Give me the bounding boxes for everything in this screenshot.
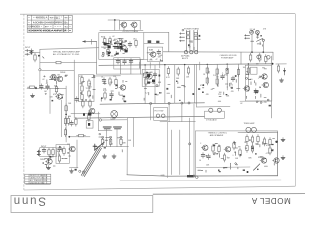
wire — [240, 100, 272, 102]
transistor Q9 — [120, 22, 127, 27]
svg-text:4.7K: 4.7K — [266, 153, 270, 155]
capacitor C26 — [114, 47, 119, 49]
AC line stubs — [245, 35, 250, 40]
resistor R65 — [246, 135, 248, 144]
node — [102, 136, 104, 138]
jack J10 — [82, 171, 84, 173]
resistor R6 — [64, 128, 66, 137]
value labels — [42, 72, 72, 118]
speaker jack J5 — [209, 108, 213, 112]
svg-text:22K: 22K — [113, 76, 117, 78]
wire — [49, 88, 51, 113]
resistor R40 — [167, 67, 169, 76]
capacitor C36 — [88, 123, 90, 126]
svg-text:12-4: 12-4 — [65, 22, 70, 24]
svg-text:10K: 10K — [226, 96, 230, 98]
wire — [76, 140, 78, 168]
wire — [174, 65, 176, 104]
stage box — [56, 145, 69, 164]
capacitor C22 — [148, 40, 152, 43]
wire — [277, 132, 279, 176]
rectifier D1 — [257, 55, 261, 59]
transistor Q14 — [201, 145, 208, 150]
svg-text:VOL: VOL — [79, 76, 83, 78]
svg-text:POWER AMP: POWER AMP — [221, 57, 234, 60]
node — [68, 136, 70, 138]
wire — [90, 39, 92, 44]
wire bus D — [127, 175, 168, 176]
svg-text:56K: 56K — [176, 78, 180, 80]
svg-text:1M: 1M — [244, 142, 247, 144]
node — [65, 114, 67, 116]
pilot lamp I1 — [256, 30, 260, 34]
value labels — [199, 142, 271, 162]
capacitor C32 — [254, 89, 258, 95]
wire — [154, 65, 156, 104]
wire — [256, 34, 258, 38]
primary taps — [180, 33, 185, 42]
svg-text:10K: 10K — [68, 103, 72, 105]
resistor R70 — [263, 137, 265, 146]
wire — [167, 122, 169, 178]
capacitor C6 — [110, 92, 114, 98]
pot R11 — [88, 89, 90, 98]
AC plug pin P2 — [190, 51, 193, 54]
resistor R22 — [120, 137, 122, 146]
transistor Q11 — [261, 74, 268, 79]
svg-text:4.7K: 4.7K — [166, 77, 170, 79]
svg-text:1K: 1K — [133, 39, 136, 41]
resistor R57 — [249, 53, 251, 62]
wire power rail — [163, 51, 273, 53]
capacitor C38 — [88, 113, 91, 116]
resistor R29 — [56, 61, 61, 63]
svg-text:ALL VOLTAGES DC TO GND: ALL VOLTAGES DC TO GND — [53, 53, 80, 56]
resistor R17 — [67, 116, 69, 125]
wire bus A — [99, 64, 273, 66]
resistor R14 — [104, 91, 106, 100]
capacitor C3 — [46, 84, 50, 90]
capacitor C14 — [42, 148, 46, 154]
bias rect — [251, 67, 258, 74]
capacitor C17 — [148, 82, 151, 84]
wire — [150, 105, 152, 120]
transistor Q7 — [149, 52, 156, 57]
capacitor C9 — [129, 59, 133, 65]
rectifier D2 — [267, 56, 271, 60]
svg-text:68K: 68K — [123, 142, 127, 144]
resistor R68 — [246, 144, 248, 153]
svg-text:68K: 68K — [158, 57, 162, 59]
transistor Q5 blob — [147, 74, 150, 77]
resistor R52 — [226, 67, 228, 76]
input box — [40, 148, 57, 157]
ground — [31, 94, 35, 98]
capacitor C23 — [156, 41, 159, 43]
wire — [96, 73, 148, 75]
svg-text:10: 10 — [101, 77, 103, 79]
svg-text:.02: .02 — [112, 36, 115, 38]
value labels — [101, 76, 124, 97]
wire — [168, 175, 278, 178]
capacitor C2 — [40, 84, 44, 90]
pot R7 — [81, 76, 83, 85]
capacitor C5 — [102, 78, 106, 84]
transistor Q13 — [243, 86, 250, 91]
node — [188, 102, 190, 104]
resistor R23 — [77, 134, 86, 136]
resistor R41 — [177, 67, 179, 76]
transistor Q8 — [120, 45, 127, 50]
svg-text:47K: 47K — [206, 94, 210, 96]
resistor R20 — [101, 137, 103, 146]
wire — [140, 60, 142, 75]
svg-text:330: 330 — [57, 74, 60, 76]
bias box — [148, 47, 163, 61]
resistor R16 — [89, 99, 91, 108]
transistor Q10 — [130, 22, 137, 27]
capacitor C28 — [108, 52, 111, 54]
svg-text:.02: .02 — [42, 79, 45, 81]
capacitor C7 — [116, 59, 120, 65]
resistor R54 — [247, 66, 249, 75]
wire — [108, 19, 120, 21]
svg-text:47K: 47K — [110, 82, 114, 84]
resistor R4 — [65, 104, 67, 113]
wire — [98, 130, 112, 132]
AC plug pin P1 — [184, 51, 187, 54]
wire — [238, 131, 278, 133]
svg-text:22K: 22K — [218, 94, 222, 96]
extra annotations — [102, 40, 274, 169]
svg-text:15K: 15K — [54, 86, 58, 88]
frame left border — [23, 14, 25, 190]
node dots on bus A — [144, 63, 249, 65]
resistor R15 — [82, 99, 84, 108]
svg-text:22K: 22K — [67, 144, 71, 146]
resistor R61 — [218, 145, 220, 154]
node — [257, 169, 259, 171]
capacitor C37 — [83, 113, 85, 116]
svg-text:INPUT: INPUT — [41, 146, 47, 148]
tremolo box — [195, 131, 277, 176]
resistor R24 — [63, 147, 65, 156]
frame bottom border — [24, 186, 295, 190]
wire — [276, 63, 287, 65]
wire — [197, 106, 231, 108]
value labels — [200, 64, 259, 90]
speaker jack J6 — [217, 108, 221, 112]
label TREMOLO CONTROL — [208, 133, 227, 137]
resistor R31 — [109, 37, 111, 46]
node — [218, 169, 220, 171]
speed pot arrow — [253, 164, 259, 170]
wire — [30, 51, 40, 53]
wire input row — [27, 87, 66, 89]
wire — [65, 86, 67, 142]
resistor R55 — [206, 76, 208, 85]
value labels — [144, 73, 190, 86]
wire — [189, 118, 191, 176]
svg-text:68K: 68K — [248, 158, 252, 160]
wire — [39, 71, 41, 88]
diode D3 — [283, 68, 286, 75]
svg-text:.1: .1 — [222, 73, 224, 75]
node — [39, 69, 41, 71]
svg-text:1K: 1K — [203, 74, 206, 76]
svg-text:15K: 15K — [149, 59, 153, 61]
svg-text:BIAS: BIAS — [149, 49, 154, 52]
svg-text:68K: 68K — [150, 72, 154, 74]
transistor Q4 — [88, 108, 95, 113]
controls box — [78, 75, 94, 102]
transistor Q17 — [273, 158, 280, 163]
wire — [144, 65, 146, 104]
svg-text:2M: 2M — [255, 144, 258, 146]
wire — [139, 62, 141, 68]
svg-text:10K: 10K — [235, 158, 239, 160]
svg-text:100: 100 — [243, 67, 246, 69]
value labels — [149, 49, 158, 62]
svg-text:2.2: 2.2 — [111, 144, 114, 146]
jack J7 — [156, 114, 160, 118]
svg-text:SCHEMATIC MODEL A AMPLIFIER: SCHEMATIC MODEL A AMPLIFIER — [28, 30, 66, 33]
capacitor C13 — [58, 146, 62, 152]
svg-text:470: 470 — [230, 85, 233, 87]
svg-text:47K: 47K — [263, 29, 267, 31]
svg-text:FOOT SW: FOOT SW — [155, 111, 164, 113]
svg-text:2N508: 2N508 — [40, 159, 45, 161]
value labels — [79, 76, 91, 90]
capacitor C1 — [30, 49, 34, 55]
svg-text:10K: 10K — [186, 77, 190, 79]
node — [272, 63, 274, 65]
resistor R64 — [239, 148, 241, 157]
svg-text:INPUT: INPUT — [25, 47, 31, 49]
wire — [168, 104, 170, 121]
svg-text:15K: 15K — [89, 86, 93, 88]
wire — [226, 64, 228, 90]
svg-text:.1: .1 — [232, 155, 234, 157]
interlock box — [86, 121, 93, 128]
frame top border — [20, 13, 295, 16]
resistor R3 — [55, 85, 57, 94]
svg-text:10K: 10K — [50, 97, 54, 99]
resistor R18 — [75, 117, 77, 126]
node — [189, 143, 191, 145]
svg-text:100: 100 — [219, 92, 222, 94]
svg-text:100: 100 — [122, 99, 125, 101]
jack J10b — [79, 170, 81, 172]
resistor R73 — [277, 64, 279, 73]
lamp M1 — [111, 111, 118, 118]
svg-text:2 RCA JACK: 2 RCA JACK — [206, 119, 218, 122]
resistor R1 — [34, 53, 36, 62]
capacitor C34 — [120, 46, 123, 49]
AC plug pin P3 — [195, 51, 198, 54]
svg-text:MODEL A: MODEL A — [36, 16, 48, 20]
parts value annotations (illegible at scale) — [43, 29, 275, 173]
resistor R50 — [206, 66, 208, 75]
svg-text:470: 470 — [231, 91, 234, 93]
wire — [69, 167, 78, 169]
capacitor C29 — [104, 43, 107, 46]
capacitor C11 — [103, 127, 111, 129]
transistor Q5 — [146, 74, 153, 79]
wire preamp box top — [40, 48, 99, 50]
gang line (hatched diagonal) — [81, 147, 101, 177]
wire — [114, 20, 116, 30]
feedback arrow — [83, 40, 97, 42]
svg-text:1M: 1M — [245, 148, 248, 150]
node — [38, 55, 40, 57]
svg-text:10K: 10K — [206, 165, 210, 167]
lamp L2 — [251, 127, 256, 132]
wire — [61, 100, 63, 137]
svg-text:330: 330 — [65, 75, 68, 77]
wire — [71, 113, 100, 115]
ground — [280, 78, 284, 82]
wire — [160, 120, 195, 122]
svg-text:470: 470 — [224, 75, 227, 77]
capacitor C35 — [125, 50, 128, 52]
svg-text:.02: .02 — [45, 83, 48, 85]
jack J8 — [161, 114, 165, 118]
resistor R12 — [109, 77, 111, 86]
input jack J11 — [93, 142, 104, 150]
resistor R69 — [251, 144, 253, 153]
svg-text:60 CY: 60 CY — [182, 58, 189, 60]
transistor Q12 — [262, 82, 269, 87]
wire — [168, 32, 170, 51]
svg-text:47: 47 — [156, 59, 158, 61]
footswitch box — [154, 108, 168, 121]
svg-text:AND SPEAKER: AND SPEAKER — [210, 134, 224, 137]
wire — [120, 179, 281, 182]
capacitor C24 — [157, 50, 161, 56]
resistor R32 — [135, 39, 137, 48]
svg-text:.02: .02 — [240, 103, 243, 105]
wire — [100, 29, 143, 31]
node — [181, 102, 183, 104]
ground — [47, 166, 51, 170]
ground — [281, 138, 285, 142]
node — [99, 119, 101, 121]
wire — [69, 136, 90, 138]
node — [275, 141, 277, 143]
transistor Q18 — [46, 159, 53, 164]
wire — [115, 58, 148, 60]
svg-text:47K: 47K — [53, 94, 57, 96]
svg-text:470: 470 — [264, 102, 267, 104]
transistor Q6 — [69, 146, 76, 151]
resistor R53 — [237, 68, 239, 77]
svg-text:117V AC: 117V AC — [181, 54, 190, 57]
wire — [123, 28, 125, 31]
node — [150, 102, 152, 104]
label amp title — [53, 50, 80, 56]
resistor R72 — [269, 146, 271, 155]
resistor R62 — [223, 153, 225, 162]
node — [110, 136, 112, 138]
wire — [272, 52, 274, 60]
resistor R28 — [187, 175, 194, 177]
svg-text:SPECIAL INSTRUMENT AMP: SPECIAL INSTRUMENT AMP — [53, 50, 80, 53]
resistor R66 — [251, 135, 253, 144]
capacitor C8 — [123, 59, 127, 65]
wire — [40, 62, 97, 64]
svg-text:10: 10 — [199, 160, 201, 162]
wire bus C — [75, 116, 205, 118]
transistor Q1a — [50, 74, 57, 79]
resistor R30 — [104, 37, 106, 46]
ground — [281, 156, 285, 160]
svg-text:R30: R30 — [101, 37, 104, 39]
svg-text:10K: 10K — [216, 76, 220, 78]
wire — [126, 118, 128, 175]
wire — [119, 60, 121, 75]
node — [35, 87, 37, 89]
svg-text:.02: .02 — [188, 47, 191, 49]
ground — [70, 169, 74, 173]
svg-text:68K: 68K — [158, 82, 162, 84]
node J2 — [102, 55, 104, 57]
wire — [196, 64, 198, 107]
resistor R25 — [58, 154, 60, 163]
capacitor C27 — [125, 50, 127, 52]
svg-text:470: 470 — [255, 93, 258, 95]
resistor R44 — [145, 77, 147, 86]
wire — [106, 129, 108, 147]
transistor Q1 — [56, 76, 63, 81]
svg-text:SW 1: SW 1 — [257, 43, 262, 45]
lamp L1 — [246, 127, 251, 132]
pot R10 — [88, 79, 90, 88]
wire — [238, 64, 240, 91]
svg-text:UNLESS NOTED: UNLESS NOTED — [30, 182, 45, 184]
resistor R59 — [265, 55, 267, 64]
wire preamp box left — [39, 49, 41, 68]
node — [120, 136, 122, 138]
transistor Q16 — [260, 158, 267, 163]
output stage box — [99, 33, 144, 60]
node J4 — [262, 51, 264, 53]
resistor R63 — [233, 141, 235, 150]
wire — [102, 119, 128, 121]
node — [168, 102, 170, 104]
resistor R21 — [109, 137, 111, 146]
resistor R27 — [52, 148, 54, 157]
wire — [247, 64, 249, 91]
wire — [42, 69, 75, 71]
capacitor C31 — [231, 76, 235, 82]
coupler box — [114, 58, 140, 69]
wire — [144, 43, 164, 45]
node — [196, 176, 199, 179]
wire — [94, 146, 129, 148]
wire — [206, 64, 208, 82]
wire — [164, 65, 166, 104]
svg-text:GND: GND — [161, 175, 166, 177]
title block entries — [28, 17, 71, 27]
resistor R33 — [107, 48, 109, 57]
resistor R26 — [48, 148, 50, 157]
wire — [262, 41, 264, 52]
node — [125, 40, 127, 42]
ground — [112, 154, 116, 158]
svg-text:10K: 10K — [128, 140, 132, 142]
svg-text:100: 100 — [149, 82, 152, 84]
